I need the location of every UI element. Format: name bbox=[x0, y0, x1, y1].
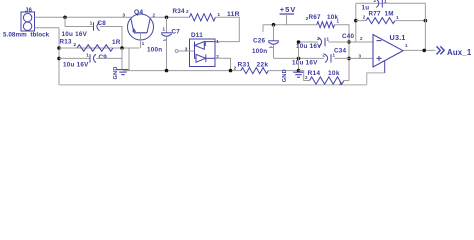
resistor R31 bbox=[241, 68, 268, 74]
wire C26 lower stem bbox=[273, 44, 275, 58]
capacitor C34 bbox=[325, 54, 331, 62]
resistor R34 bbox=[189, 14, 215, 21]
junction C7 tap bbox=[165, 15, 169, 19]
pin 1 of U3 bbox=[405, 43, 408, 48]
svg-text:C8: C8 bbox=[98, 20, 107, 27]
junction output bbox=[422, 49, 426, 53]
op-amp U3.1 bbox=[373, 35, 403, 73]
wire R77 branch left bbox=[356, 20, 366, 22]
pin 1 of C34 bbox=[333, 53, 336, 58]
pin 1 of C40 bbox=[327, 36, 330, 41]
wire row1 left bbox=[299, 41, 319, 43]
svg-text:1: 1 bbox=[142, 41, 145, 46]
label R14 bbox=[308, 70, 321, 77]
svg-text:1: 1 bbox=[327, 36, 330, 41]
svg-text:1: 1 bbox=[163, 27, 166, 32]
transistor Q4 bbox=[128, 14, 154, 48]
svg-text:2: 2 bbox=[323, 52, 326, 57]
svg-text:1M: 1M bbox=[385, 10, 394, 17]
label R13 bbox=[60, 38, 73, 45]
ground GND2 bbox=[293, 72, 304, 77]
wire feedback top branch bbox=[356, 2, 426, 4]
wire C8 row right bbox=[100, 27, 122, 49]
wire Q4 right bbox=[149, 16, 189, 18]
svg-text:2: 2 bbox=[363, 14, 366, 19]
bottom rail wire left bbox=[123, 70, 241, 72]
capacitor 1u feedback bbox=[376, 0, 382, 8]
junction gnd rail bbox=[297, 69, 301, 73]
svg-text:1: 1 bbox=[337, 18, 340, 23]
label C9 bbox=[99, 54, 108, 61]
svg-text:2: 2 bbox=[374, 0, 377, 3]
wire R14 right bbox=[344, 80, 349, 82]
node junction on top wire bbox=[63, 15, 67, 19]
label R77 bbox=[369, 10, 382, 17]
wire J6 pin1 to Q4 bbox=[35, 16, 132, 18]
label U3.1 bbox=[390, 33, 406, 42]
svg-text:100n: 100n bbox=[252, 48, 267, 55]
svg-text:2: 2 bbox=[306, 16, 309, 21]
pin 2 of C40 bbox=[317, 36, 320, 41]
svg-text:22k: 22k bbox=[257, 62, 269, 69]
wire D11 pin3 stub bbox=[178, 50, 195, 52]
junction C7 bottom bbox=[165, 69, 169, 73]
svg-text:C7: C7 bbox=[172, 28, 181, 35]
label GND1 bbox=[113, 66, 119, 79]
value C34 10u 16V bbox=[292, 59, 318, 66]
wire R77 branch right bbox=[395, 20, 426, 22]
pin 1 of R67 bbox=[337, 18, 340, 23]
label J6 bbox=[25, 7, 33, 14]
svg-text:1: 1 bbox=[86, 53, 89, 58]
port Aux_1 chevrons bbox=[437, 46, 445, 54]
label Q4 bbox=[134, 9, 143, 16]
value 1u bbox=[362, 4, 370, 11]
junction left rail C9 bbox=[57, 57, 61, 61]
label R34 bbox=[173, 8, 186, 15]
svg-text:2: 2 bbox=[186, 9, 189, 14]
capacitor C9 bbox=[90, 54, 96, 62]
svg-text:2: 2 bbox=[360, 36, 363, 41]
pin 2 of R31 bbox=[234, 65, 237, 70]
border wire up right bbox=[367, 73, 385, 85]
resistor R14 bbox=[310, 77, 345, 84]
svg-text:R34: R34 bbox=[173, 8, 186, 15]
wire 5V row bbox=[263, 24, 317, 26]
no-connect circle D11 pin3 bbox=[175, 50, 178, 53]
label R67 bbox=[309, 14, 322, 21]
svg-text:1: 1 bbox=[339, 80, 342, 85]
wire J6 pin2 to left rail bbox=[35, 27, 60, 29]
label C34 bbox=[334, 48, 347, 55]
wire row1 right bbox=[328, 41, 373, 43]
svg-text:C9: C9 bbox=[99, 54, 108, 61]
svg-text:2: 2 bbox=[234, 65, 237, 70]
label R31 bbox=[238, 62, 251, 69]
svg-text:1: 1 bbox=[396, 15, 399, 20]
svg-text:10k: 10k bbox=[328, 70, 340, 77]
capacitor C40 bbox=[319, 38, 325, 46]
label C26 bbox=[253, 37, 266, 44]
svg-text:R77: R77 bbox=[369, 10, 382, 17]
resistor R77 bbox=[366, 18, 395, 24]
pin 1 of C9 bbox=[86, 53, 89, 58]
wire C8 row left bbox=[65, 26, 94, 28]
value R67 10k bbox=[327, 14, 339, 21]
wire output bbox=[403, 49, 436, 51]
capacitor C26 bbox=[268, 41, 279, 44]
value C40 10u 16V bbox=[296, 43, 322, 50]
value R31 22k bbox=[257, 62, 269, 69]
svg-text:C26: C26 bbox=[253, 37, 266, 44]
pin 1 of feedback cap bbox=[384, 0, 387, 3]
wire junction down to C8 row bbox=[64, 17, 66, 26]
svg-text:1: 1 bbox=[405, 43, 408, 48]
wire C9 row left bbox=[59, 57, 90, 59]
value C8 10u 16V bbox=[62, 31, 88, 38]
value C9 10u 16V bbox=[63, 62, 89, 69]
svg-text:2: 2 bbox=[153, 12, 156, 17]
capacitor C7 bbox=[161, 33, 172, 36]
pin 3 of Q4 bbox=[123, 12, 126, 17]
wire C9 row right up to junction bbox=[96, 48, 122, 58]
bottom border wire bbox=[59, 84, 367, 86]
pin 1 of C7 bbox=[163, 27, 166, 32]
pin 1 of R77 bbox=[396, 15, 399, 20]
pin 2 of R67 bbox=[306, 16, 309, 21]
svg-text:2: 2 bbox=[305, 75, 308, 80]
svg-text:2: 2 bbox=[74, 42, 77, 47]
svg-text:5.08mm tblock: 5.08mm tblock bbox=[3, 32, 50, 39]
value R13 1R bbox=[112, 39, 121, 46]
label +5V bbox=[280, 5, 296, 14]
wire feedback left vertical bbox=[355, 3, 357, 42]
value C26 100n bbox=[252, 48, 267, 55]
bottom rail wire right bbox=[268, 70, 303, 72]
label D11 bbox=[191, 32, 203, 39]
wire D11 pin2 down bbox=[215, 58, 231, 70]
pin 1 of C8 bbox=[90, 21, 93, 26]
svg-text:+5V: +5V bbox=[280, 5, 296, 14]
power +5V bbox=[280, 14, 295, 25]
junction R13 rail bbox=[120, 46, 124, 50]
svg-text:C40: C40 bbox=[342, 33, 355, 40]
wire C7 upper stem bbox=[166, 17, 168, 33]
wire feedback right vertical bbox=[424, 3, 426, 50]
value R34 11R bbox=[227, 11, 240, 18]
pin 2 of R14 bbox=[305, 75, 308, 80]
svg-text:R13: R13 bbox=[60, 38, 73, 45]
svg-text:1: 1 bbox=[384, 0, 387, 3]
pin 2 of U3 bbox=[360, 36, 363, 41]
junction feedback right bbox=[424, 19, 428, 23]
label GND2 bbox=[282, 69, 288, 82]
pin 2 of R13 bbox=[74, 42, 77, 47]
svg-text:Q4: Q4 bbox=[134, 9, 143, 16]
wire R13 rail bbox=[59, 47, 140, 49]
pin 3 of U3 bbox=[359, 53, 362, 58]
wire row2 left bbox=[274, 57, 325, 59]
diode D11 top bbox=[195, 42, 216, 50]
pin 1 of D11 bbox=[216, 39, 219, 44]
svg-text:3: 3 bbox=[359, 53, 362, 58]
svg-text:10u 16V: 10u 16V bbox=[62, 31, 88, 38]
svg-text:3: 3 bbox=[123, 12, 126, 17]
pin 2 of R77 bbox=[363, 14, 366, 19]
label C7 bbox=[172, 28, 181, 35]
svg-text:GND: GND bbox=[113, 66, 119, 79]
svg-text:GND: GND bbox=[282, 69, 288, 82]
junction feedback left bbox=[354, 19, 358, 23]
label 5.08mm tblock bbox=[3, 32, 50, 39]
pin 3 of D11 bbox=[185, 46, 188, 51]
svg-text:10u 16V: 10u 16V bbox=[292, 59, 318, 66]
svg-text:R31: R31 bbox=[238, 62, 251, 69]
pin 1 of R14 bbox=[339, 80, 342, 85]
resistor R13 bbox=[77, 45, 113, 51]
pin 2 of Q4 bbox=[153, 12, 156, 17]
polarity curl C7 bbox=[164, 39, 167, 42]
junction row2 gnd bbox=[297, 57, 301, 61]
wire C7 lower stem bbox=[166, 36, 168, 70]
svg-text:R67: R67 bbox=[309, 14, 322, 21]
diode D11 bottom bbox=[195, 49, 216, 62]
junction row1 gnd bbox=[297, 40, 301, 44]
capacitor C8 bbox=[94, 22, 100, 30]
wire C26 upper stem bbox=[273, 25, 275, 41]
wire gnd bus vertical bbox=[298, 42, 300, 72]
wire GND1 stem bbox=[121, 58, 123, 69]
value C7 100n bbox=[147, 46, 162, 53]
junction node B bbox=[347, 57, 351, 61]
svg-text:U3.1: U3.1 bbox=[390, 33, 406, 42]
junction C26 tap bbox=[272, 23, 276, 27]
junction left rail R13 bbox=[57, 46, 61, 50]
svg-text:R14: R14 bbox=[308, 70, 321, 77]
svg-text:2: 2 bbox=[317, 36, 320, 41]
svg-text:J6: J6 bbox=[25, 7, 33, 14]
left rail wire bbox=[58, 28, 60, 85]
ground GND1 bbox=[117, 70, 129, 75]
diode D11 box bbox=[190, 39, 216, 67]
polarity curl C26 bbox=[270, 46, 273, 49]
value R14 10k bbox=[328, 70, 340, 77]
value R77 1M bbox=[385, 10, 394, 17]
wire R13 rail down to bottom rail bbox=[128, 48, 130, 71]
label C8 bbox=[98, 20, 107, 27]
resistor R67 bbox=[317, 22, 335, 28]
svg-text:1: 1 bbox=[216, 39, 219, 44]
junction node A bbox=[347, 40, 351, 44]
label Aux_1 bbox=[447, 48, 472, 57]
svg-text:1: 1 bbox=[90, 21, 93, 26]
wire R34 to D11 pin1 bbox=[215, 17, 239, 41]
svg-text:D11: D11 bbox=[191, 32, 203, 39]
wire row2 right bbox=[334, 57, 373, 59]
svg-text:10u 16V: 10u 16V bbox=[296, 43, 322, 50]
pin 1 of R34 bbox=[218, 12, 221, 17]
pin 2 of C34 bbox=[323, 52, 326, 57]
wire R67 to node X bbox=[335, 25, 350, 81]
svg-text:Aux_1: Aux_1 bbox=[447, 48, 472, 57]
pin 1 of Q4 bbox=[142, 41, 145, 46]
svg-text:C34: C34 bbox=[334, 48, 347, 55]
pin 2 of feedback cap bbox=[374, 0, 377, 3]
pin 2 of D11 bbox=[216, 54, 219, 59]
wire 5V row left stub bbox=[262, 25, 264, 32]
pin 2 of R34 bbox=[186, 9, 189, 14]
svg-text:1: 1 bbox=[218, 12, 221, 17]
label C40 bbox=[342, 33, 355, 40]
wire rail to R14 bbox=[299, 71, 310, 81]
svg-text:1R: 1R bbox=[112, 39, 121, 46]
svg-text:100n: 100n bbox=[147, 46, 162, 53]
svg-text:10u 16V: 10u 16V bbox=[63, 62, 89, 69]
connector J6 bbox=[21, 12, 35, 31]
junction D11 bottom bbox=[229, 69, 233, 73]
